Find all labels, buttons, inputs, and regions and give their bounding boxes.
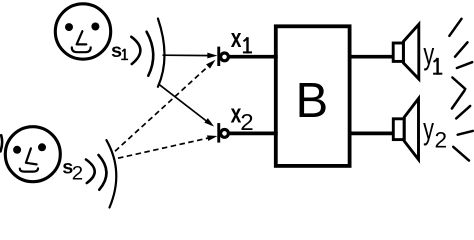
svg-text:x: x (231, 23, 242, 53)
svg-text:y: y (423, 36, 434, 71)
svg-text:s: s (111, 40, 122, 61)
svg-text:B: B (296, 74, 329, 128)
svg-text:2: 2 (240, 110, 253, 135)
svg-text:2: 2 (72, 163, 83, 184)
svg-text:2: 2 (435, 128, 448, 153)
svg-text:y: y (423, 111, 434, 146)
